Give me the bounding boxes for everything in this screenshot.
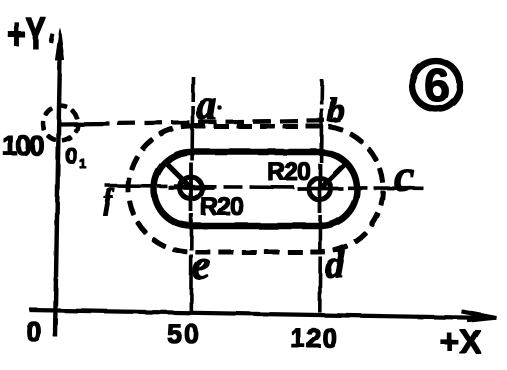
- figure number circle 6: [412, 59, 460, 111]
- vertical center line b-d at X=120: [320, 80, 322, 312]
- svg-text:a: a: [196, 83, 217, 129]
- svg-text:+Y: +Y: [7, 10, 46, 60]
- svg-text:+X: +X: [440, 323, 481, 360]
- solid slot contour: [154, 152, 357, 226]
- dashed outer contour (equidistant): [128, 126, 383, 252]
- svg-text:0: 0: [65, 143, 77, 168]
- svg-text:1: 1: [79, 156, 86, 171]
- svg-text:d: d: [325, 244, 345, 286]
- svg-text:R20: R20: [200, 193, 243, 221]
- center mark circle C1: [180, 177, 202, 199]
- svg-text:0: 0: [26, 316, 42, 347]
- dashed horizontal line Y=100 from O1: [61, 122, 109, 126]
- horizontal center line f-c: [106, 186, 423, 188]
- svg-text:R20: R20: [267, 158, 310, 186]
- svg-text:6: 6: [424, 59, 450, 111]
- svg-text:c: c: [394, 150, 414, 201]
- center cross C2: [298, 164, 343, 213]
- svg-text:50: 50: [167, 319, 201, 349]
- stray tick near +Y: [49, 34, 54, 42]
- center cross C1: [169, 163, 214, 211]
- Y axis: [55, 28, 64, 336]
- dot mark near a: [218, 106, 221, 109]
- center mark circle C2: [309, 178, 331, 200]
- vertical center line a-e at X=50: [191, 77, 193, 313]
- dashed circle at O1: [43, 106, 78, 141]
- X axis: [30, 310, 496, 321]
- svg-text:b: b: [327, 90, 345, 130]
- svg-text:f: f: [103, 185, 115, 216]
- radius leader R20 left: [165, 162, 190, 187]
- radius leader R20 right: [321, 162, 347, 188]
- svg-text:100: 100: [2, 130, 44, 161]
- svg-text:120: 120: [290, 323, 338, 353]
- svg-text:e: e: [192, 243, 211, 289]
